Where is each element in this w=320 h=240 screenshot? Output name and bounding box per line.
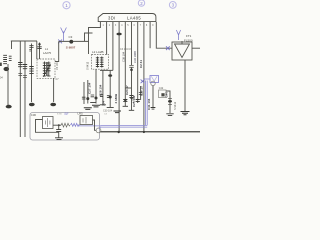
coil taps on x25 — [23, 65, 27, 69]
op-amp U1 IC1 LA1185 body — [98, 14, 156, 22]
component box right mid — [159, 90, 167, 98]
wire pin10 to filter — [156, 22, 172, 48]
wire drop x12 — [11, 41, 13, 49]
junction dot pin6 — [130, 97, 132, 99]
svg-text:S 9412: S 9412 — [86, 61, 90, 70]
wire antenna feed — [59, 40, 89, 42]
wire pin2 — [106, 22, 108, 55]
wire drop x31 — [31, 44, 33, 103]
coil L2 shield box — [86, 50, 109, 70]
wire pin6 — [131, 22, 133, 110]
svg-text:04: 04 — [0, 77, 3, 80]
capacitor C33 — [56, 130, 61, 132]
wire pin8 long to bus — [143, 22, 145, 132]
svg-text:LR5: LR5 — [78, 111, 84, 115]
wire T1 bottom down — [53, 78, 55, 102]
edge tick left — [0, 63, 2, 66]
pin numbers row — [103, 24, 155, 27]
test point X marker at filter input — [166, 46, 170, 50]
wire chain D — [109, 70, 111, 107]
wire pin5 — [124, 22, 126, 106]
coil body blob — [4, 67, 10, 71]
svg-text:LA275: LA275 — [43, 51, 52, 55]
ground inside box — [55, 138, 63, 140]
svg-text:FT1: FT1 — [186, 34, 192, 38]
coil taps on x19 — [18, 63, 22, 67]
node 3 circled callout — [169, 2, 176, 9]
svg-text:C38 104: C38 104 — [122, 51, 126, 62]
ground blob under x31 — [29, 103, 35, 106]
wire from LR5 to connector — [93, 120, 97, 130]
capacitor C40 blob — [168, 100, 172, 103]
capacitor bars pin7 — [136, 100, 140, 102]
label FT1 FL500 — [184, 34, 193, 43]
blue link to bus — [99, 127, 101, 129]
svg-text:C3: C3 — [104, 114, 108, 116]
highlighted path vertical double line — [145, 81, 147, 126]
svg-text:C3 104 C3: C3 104 C3 — [120, 48, 132, 51]
coil taps on x31 — [29, 67, 33, 74]
node 1 circled callout — [63, 2, 70, 9]
coil T1 shield box — [37, 47, 55, 78]
junction dot on bus — [118, 131, 120, 133]
svg-text:C26 10: C26 10 — [139, 86, 143, 96]
junction dot on output — [58, 124, 60, 126]
svg-text:C42: C42 — [159, 87, 164, 90]
wire box right leg — [166, 91, 170, 113]
svg-text:LA485: LA485 — [127, 15, 141, 20]
inductor annotation blue — [71, 123, 80, 126]
ground under x96 — [92, 105, 100, 107]
svg-text:4: 4 — [121, 24, 123, 27]
svg-text:9: 9 — [152, 24, 154, 27]
wire link pin5-pin6 — [125, 87, 131, 89]
junction dot pin5 — [124, 99, 126, 101]
svg-text:S 9807: S 9807 — [66, 46, 76, 50]
wire from bubble to bus — [152, 86, 154, 107]
svg-text:3: 3 — [115, 24, 117, 27]
capacitor bars chains C D — [100, 95, 114, 108]
svg-text:C7: C7 — [56, 78, 60, 81]
sub-board enclosure box bottom left — [30, 113, 100, 141]
svg-text:C5 104: C5 104 — [56, 62, 59, 70]
wire filter bottom — [184, 60, 186, 111]
wire crystal left loop — [36, 120, 59, 133]
wire L2 secondary down — [95, 69, 97, 103]
capacitor C38 on pin6 — [129, 66, 133, 68]
connector bubble on box edge — [96, 128, 101, 133]
wire crystal right — [53, 124, 61, 126]
capacitor C32 bead on pin4 — [116, 33, 121, 36]
wire pin9 — [149, 22, 151, 48]
capacitor bars pin5 — [123, 100, 128, 107]
ground bus bottom right — [100, 131, 200, 132]
capacitor C31 blob on chain D — [108, 74, 112, 77]
transformer L2 windings — [96, 57, 104, 68]
svg-text:C30 104: C30 104 — [103, 110, 113, 113]
highlighted path link stub — [145, 78, 150, 80]
top bus wire left section — [11, 40, 37, 42]
crystal X1 box — [43, 117, 54, 129]
wire x140 lower — [140, 86, 142, 100]
ground bars above subboard — [90, 102, 96, 104]
svg-text:5: 5 — [127, 24, 129, 27]
capacitor C22 on x96 — [95, 97, 98, 100]
wire drop x25 long — [24, 41, 26, 137]
wire pin1 staircase — [89, 22, 101, 54]
svg-text:3DI: 3DI — [108, 15, 116, 20]
svg-text:L2 LA2B: L2 LA2B — [92, 50, 104, 54]
ferrite rod antenna L0 — [3, 55, 11, 63]
svg-text:C28 104: C28 104 — [98, 84, 102, 96]
antenna AN1 — [61, 28, 67, 42]
wire antenna to T1 — [55, 41, 59, 61]
svg-text:C24 47: C24 47 — [125, 85, 129, 95]
svg-text:8: 8 — [146, 24, 148, 27]
wire companion — [83, 82, 85, 104]
svg-text:104: 104 — [102, 101, 106, 106]
highlighted path inside subboard — [79, 124, 100, 126]
node 2 circled callout — [138, 0, 144, 6]
ground blob bottom left — [6, 105, 12, 109]
resistor R5 squiggle — [61, 123, 70, 127]
highlighted path X marker top — [141, 79, 145, 83]
svg-text:C25 104: C25 104 — [132, 95, 136, 107]
wire pin4 — [118, 22, 120, 132]
svg-text:3: 3 — [172, 3, 175, 8]
wire ferrite down — [7, 64, 9, 105]
svg-text:C3: C3 — [69, 35, 73, 39]
component box LR5 — [80, 116, 93, 125]
wire pin7 — [137, 22, 139, 103]
filter FL2 blue box — [150, 76, 159, 83]
ground bar pin4 — [114, 111, 122, 113]
ceramic filter CF1 FL500 — [172, 41, 192, 60]
wire L2 tap down — [87, 80, 89, 104]
svg-text:C41 104: C41 104 — [147, 98, 151, 110]
ground under x87.8 — [84, 108, 92, 110]
highlighted path horizontal double line — [100, 125, 147, 127]
svg-text:S 94: S 94 — [57, 114, 62, 116]
wire pin3 — [100, 22, 113, 70]
svg-text:4 186B: 4 186B — [114, 93, 118, 104]
svg-text:2: 2 — [109, 24, 111, 27]
wire pin1 second step — [85, 33, 93, 41]
svg-text:C2 41: C2 41 — [139, 60, 143, 68]
capacitor C21 on x87.8 — [86, 97, 89, 100]
svg-text:C40: C40 — [165, 92, 169, 98]
svg-text:C30: C30 — [31, 113, 37, 117]
wire drop x19 long — [19, 41, 21, 137]
capacitor bars pin6 lower — [129, 96, 134, 111]
svg-text:FL500: FL500 — [184, 39, 193, 43]
svg-text:7: 7 — [140, 24, 142, 27]
svg-text:C34 186B: C34 186B — [133, 51, 137, 63]
svg-text:S 9412: S 9412 — [173, 101, 177, 110]
ground blob under T1 — [50, 103, 56, 106]
transformer T1 windings — [43, 62, 51, 77]
capacitor C2 on x37 — [37, 47, 41, 49]
svg-text:1: 1 — [103, 24, 105, 27]
capacitor C3 bead — [69, 35, 74, 43]
svg-text:2: 2 — [140, 1, 143, 6]
svg-text:BF: BF — [65, 112, 69, 116]
svg-text:C27 104: C27 104 — [88, 82, 92, 94]
wire x106.5 lower — [102, 70, 104, 104]
svg-text:6: 6 — [134, 24, 136, 27]
antenna marker above CF1 — [176, 30, 180, 40]
wire drop x37 — [36, 41, 38, 59]
ground below CF1 — [181, 112, 190, 115]
connector bubble under blue box — [151, 81, 155, 85]
wire filter output — [192, 47, 200, 49]
component mark inside box — [161, 93, 164, 96]
svg-text:1: 1 — [65, 3, 68, 8]
capacitor bars x140 — [139, 93, 143, 95]
test point X marker on antenna wire — [58, 40, 62, 44]
